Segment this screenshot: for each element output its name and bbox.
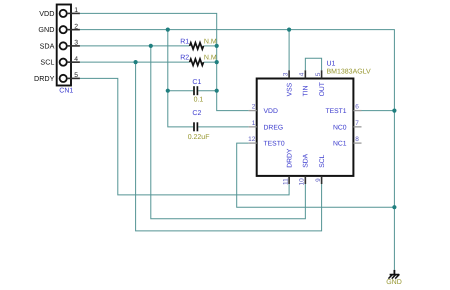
wire R2 right to VDD vertical xyxy=(204,61,217,63)
svg-text:R1: R1 xyxy=(180,38,189,45)
svg-text:1: 1 xyxy=(252,120,256,127)
svg-text:NC0: NC0 xyxy=(333,124,347,131)
wire SCL net: CN1 pin4 to R2 left xyxy=(80,61,190,63)
svg-text:TEST0: TEST0 xyxy=(264,141,285,148)
svg-text:4: 4 xyxy=(74,56,78,63)
U1 right pin stubs (6,7,8) xyxy=(353,111,361,144)
svg-text:3: 3 xyxy=(74,40,78,47)
svg-text:VDD: VDD xyxy=(264,108,278,115)
wire SDA net: CN1 pin3 to R1 left xyxy=(80,45,190,47)
connector CN1 body xyxy=(57,5,71,86)
svg-text:U1: U1 xyxy=(327,60,336,67)
connector CN1 pin 5 circle xyxy=(60,75,67,82)
connector CN1 pin 4 circle xyxy=(60,59,67,66)
svg-text:SDA: SDA xyxy=(303,153,310,167)
junction GND-line/x167.8 xyxy=(166,28,170,32)
junction TEST1/GND vertical xyxy=(392,109,396,113)
junction GND/C1-left xyxy=(166,89,170,93)
svg-text:3: 3 xyxy=(282,72,289,76)
ground symbol xyxy=(388,270,399,279)
svg-text:1: 1 xyxy=(74,7,78,14)
connector CN1 pin 3 circle xyxy=(60,42,67,49)
capacitor C1 xyxy=(194,86,197,95)
U1 top pin stubs (3,4,5) xyxy=(289,70,322,78)
svg-text:N.M: N.M xyxy=(204,38,217,45)
svg-text:DRDY: DRDY xyxy=(34,74,55,83)
svg-text:4: 4 xyxy=(299,72,306,76)
wire DRDY net: CN1 pin5 down and to U1 DRDY pin 11 xyxy=(80,78,289,194)
junction SDA/R1-left branch xyxy=(149,44,153,48)
svg-text:GND: GND xyxy=(38,25,54,34)
wire TEST1 net: U1 pin6 to GND vertical xyxy=(362,110,395,112)
svg-text:VDD: VDD xyxy=(39,9,54,18)
svg-text:5: 5 xyxy=(74,72,78,79)
wire SCL branch down and to U1 SCL pin 9 xyxy=(136,62,322,231)
svg-text:12: 12 xyxy=(248,136,256,143)
U1 bottom pin stubs (11,10,9) xyxy=(289,176,322,184)
svg-text:N.M: N.M xyxy=(204,55,217,62)
svg-text:6: 6 xyxy=(355,104,359,111)
svg-text:OUT: OUT xyxy=(319,82,326,96)
wire C1 left plate to GND vertical xyxy=(168,90,194,92)
svg-text:TIN: TIN xyxy=(303,85,310,96)
svg-text:R2: R2 xyxy=(180,55,189,62)
svg-text:CN1: CN1 xyxy=(59,88,73,95)
connector CN1 pin 2 circle xyxy=(60,26,67,33)
wire SDA branch down and to U1 SDA pin 10 xyxy=(151,46,306,219)
wire GND net: CN1 pin2 right to x=394 then down to GND symbol xyxy=(80,30,395,270)
svg-text:9: 9 xyxy=(315,178,322,182)
svg-text:DRDY: DRDY xyxy=(286,148,293,168)
wire C2 right plate to U1 DREG pin 1 xyxy=(198,126,248,128)
wire C1 right plate to VDD vertical xyxy=(198,90,217,92)
junction SCL/R2-left branch xyxy=(134,60,138,64)
wire VDD net: CN1 pin1 right, down at x=216.7 to U1 VDD pin xyxy=(80,13,249,110)
junction TEST0/GND vertical xyxy=(392,205,396,209)
svg-text:11: 11 xyxy=(282,178,289,185)
wire GND drop to C1 and C2 left plates xyxy=(168,30,194,127)
junction R2-right/VDD xyxy=(215,60,219,64)
junction GND-line/VSS drop xyxy=(287,28,291,32)
svg-text:SDA: SDA xyxy=(40,41,55,50)
svg-text:BM1383AGLV: BM1383AGLV xyxy=(327,69,372,76)
svg-text:DREG: DREG xyxy=(264,124,284,131)
wire R1 right to VDD vertical xyxy=(204,45,217,47)
svg-text:C1: C1 xyxy=(192,79,201,86)
svg-text:NC1: NC1 xyxy=(333,141,347,148)
svg-text:TEST1: TEST1 xyxy=(325,108,346,115)
op-amp U1 body (IC BM1383AGLV) xyxy=(257,79,354,176)
resistor R1 xyxy=(190,43,204,49)
svg-text:0.22uF: 0.22uF xyxy=(188,134,210,141)
wire GND drop to VSS pin 3 xyxy=(288,30,290,71)
connector CN1 pin stubs xyxy=(67,13,80,78)
svg-text:SCL: SCL xyxy=(319,154,326,167)
svg-text:2: 2 xyxy=(74,23,78,30)
svg-text:0.1: 0.1 xyxy=(194,97,204,104)
svg-text:5: 5 xyxy=(315,72,322,76)
svg-text:8: 8 xyxy=(355,136,359,143)
svg-text:GND: GND xyxy=(386,279,402,286)
U1 left pin stubs (2,1,12) xyxy=(249,111,257,144)
svg-text:7: 7 xyxy=(355,120,359,127)
svg-text:SCL: SCL xyxy=(40,58,54,67)
resistor R2 xyxy=(190,59,204,65)
svg-text:C2: C2 xyxy=(192,110,201,117)
junction R1-right/VDD xyxy=(215,44,219,48)
svg-text:10: 10 xyxy=(299,178,306,186)
junction C1-right/VDD xyxy=(215,89,219,93)
wire TEST0 net: U1 pin12 left, down, right to GND vertical xyxy=(237,143,395,207)
svg-text:VSS: VSS xyxy=(286,82,293,96)
connector CN1 pin 1 circle xyxy=(60,10,67,17)
svg-text:2: 2 xyxy=(252,104,256,111)
capacitor C2 xyxy=(194,122,197,131)
wire TIN-OUT bridge above U1 xyxy=(305,58,321,70)
